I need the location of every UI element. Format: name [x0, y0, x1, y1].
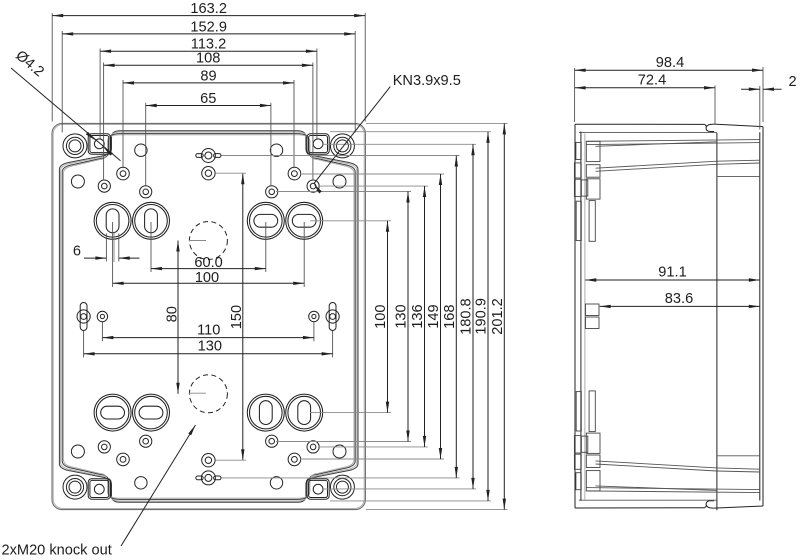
center ring hole bottom	[202, 454, 215, 467]
dimension 201.2 vertical	[490, 123, 506, 509]
dashed knockout circle top	[189, 222, 227, 260]
center ring hole top	[202, 167, 215, 180]
middle row winged slot left	[77, 303, 90, 331]
svg-text:190.9: 190.9	[474, 298, 490, 335]
svg-text:136: 136	[410, 304, 426, 328]
callout Ø4.2	[11, 48, 121, 161]
callout 2xM20 knock out	[2, 425, 196, 559]
side view outer silhouette	[575, 124, 763, 508]
svg-text:98.4: 98.4	[656, 55, 684, 71]
svg-text:201.2: 201.2	[490, 298, 506, 335]
svg-text:110: 110	[197, 322, 220, 338]
front view outer outline	[52, 123, 365, 509]
svg-text:91.1: 91.1	[658, 265, 686, 281]
center winged hole top	[196, 149, 221, 163]
knockout pair bottom-left (horizontal slots)	[94, 394, 169, 431]
corner cluster bottom-right	[266, 435, 355, 499]
dimension 72.4	[575, 73, 715, 90]
side view knockout wall steps	[586, 141, 601, 491]
dimension 60.0	[151, 255, 266, 271]
svg-text:168: 168	[442, 305, 458, 329]
middle row ring left	[97, 311, 107, 321]
svg-text:150: 150	[229, 305, 245, 329]
dashed knockout circle bottom	[189, 375, 227, 413]
front view inner wall ring A	[59, 131, 358, 502]
svg-text:65: 65	[200, 91, 216, 107]
dimension 6	[73, 243, 140, 259]
side view left hinge tabs	[574, 143, 587, 490]
middle row winged slot right	[326, 303, 339, 331]
svg-text:100: 100	[195, 270, 219, 286]
dimension 168 vertical	[442, 156, 458, 478]
dimension 150 vertical internal	[215, 173, 246, 460]
svg-text:130: 130	[394, 304, 410, 328]
svg-text:KN3.9x9.5: KN3.9x9.5	[393, 73, 461, 89]
svg-text:83.6: 83.6	[665, 291, 693, 307]
svg-text:6: 6	[73, 243, 81, 259]
svg-text:163.2: 163.2	[190, 1, 227, 17]
dimension 152.9	[62, 19, 355, 35]
svg-text:149: 149	[426, 304, 442, 328]
extension lines right dims	[222, 123, 508, 509]
dimension 89	[123, 68, 294, 84]
svg-text:130: 130	[198, 339, 222, 355]
svg-text:2xM20 knock out: 2xM20 knock out	[2, 543, 112, 559]
dimension 149 vertical	[426, 174, 442, 459]
svg-text:80: 80	[164, 306, 180, 322]
svg-text:89: 89	[200, 68, 216, 84]
corner cluster top-right	[266, 134, 355, 198]
dimension 80 vertical internal	[164, 241, 180, 394]
dimension 180.8 vertical	[459, 144, 475, 489]
dimension 130 vertical	[394, 192, 410, 442]
dimension 2	[741, 74, 797, 91]
dimension 100 horizontal	[113, 270, 305, 286]
callout KN3.9x9.5	[314, 73, 461, 194]
side view interior shelf lines	[586, 140, 760, 493]
corner cluster top-left	[63, 134, 152, 198]
dimension 110	[102, 322, 314, 339]
svg-text:2: 2	[788, 74, 796, 90]
dimension 113.2	[100, 37, 317, 53]
extension lines side dims	[575, 67, 763, 130]
dimension 83.6	[600, 291, 760, 308]
dimension 190.9 vertical	[474, 132, 490, 501]
svg-text:60.0: 60.0	[194, 255, 222, 271]
corner cluster bottom-left	[63, 435, 152, 499]
side view lid lines	[579, 132, 760, 511]
extension lines middle dims	[84, 222, 333, 358]
dimension 65	[146, 91, 271, 107]
dimension 130 horizontal	[84, 339, 333, 356]
knockout pair top-right (horizontal slots)	[247, 202, 322, 239]
svg-text:72.4: 72.4	[638, 73, 666, 89]
dimension 163.2	[52, 1, 365, 17]
dimension 100 vertical	[373, 221, 389, 413]
dimension 91.1	[585, 265, 760, 282]
svg-text:180.8: 180.8	[459, 298, 475, 335]
extension lines top dims	[52, 13, 365, 186]
dimension 108	[104, 51, 313, 67]
svg-text:100: 100	[373, 305, 389, 329]
middle row ring right	[309, 311, 319, 321]
knockout pair top-left (vertical slots)	[94, 202, 169, 239]
dimension 98.4	[575, 55, 763, 72]
front view inner wall ring B	[62, 134, 355, 500]
svg-text:152.9: 152.9	[190, 19, 227, 35]
dimension 136 vertical	[410, 186, 426, 447]
svg-text:108: 108	[196, 51, 220, 67]
center winged hole bottom	[196, 471, 221, 485]
knockout pair bottom-right (vertical slots)	[247, 394, 322, 431]
